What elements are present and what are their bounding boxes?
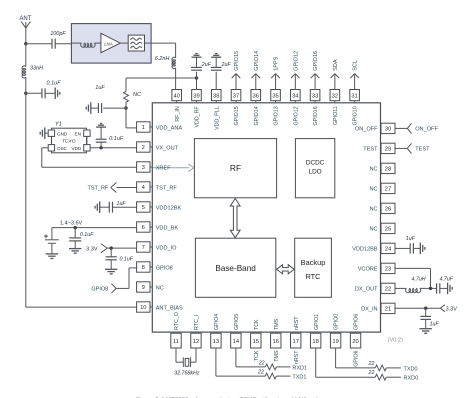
port GPIO15 arrow bbox=[235, 74, 237, 90]
svg-text:ANT_BIAS: ANT_BIAS bbox=[156, 305, 183, 311]
capacitor 0.1uF VDD_IO bbox=[110, 248, 112, 257]
arrow RF to Base-Band bbox=[230, 199, 240, 238]
pin 31 box bbox=[350, 90, 360, 101]
svg-text:3.3V: 3.3V bbox=[86, 246, 98, 252]
svg-text:ANT: ANT bbox=[19, 16, 31, 22]
block Base-Band bbox=[195, 238, 275, 297]
block DCDC LDO bbox=[295, 139, 334, 198]
wire pin 13 GPIO4 to R bbox=[215, 348, 217, 376]
svg-text:RF_IN: RF_IN bbox=[175, 106, 181, 121]
svg-text:TCK: TCK bbox=[254, 350, 260, 361]
svg-text:14: 14 bbox=[233, 339, 240, 345]
svg-text:TCK: TCK bbox=[254, 319, 260, 330]
svg-text:GPIO11: GPIO11 bbox=[333, 106, 339, 125]
pin 33 box bbox=[310, 90, 320, 101]
ground 4.7uF cap bbox=[447, 283, 449, 295]
svg-text:32.768kHz: 32.768kHz bbox=[174, 370, 200, 376]
wire ANT_BIAS rail bbox=[25, 93, 27, 307]
capacitor 1uF VDD12BB bbox=[395, 247, 410, 249]
svg-text:6.2nH: 6.2nH bbox=[155, 56, 170, 62]
svg-text:GPIO8: GPIO8 bbox=[156, 265, 173, 271]
svg-text:VDD12BK: VDD12BK bbox=[156, 205, 182, 211]
pin 14 box bbox=[231, 333, 241, 348]
svg-text:GPIO8: GPIO8 bbox=[91, 287, 108, 293]
svg-text:VDD_RF: VDD_RF bbox=[195, 106, 201, 128]
svg-text:GPIO4: GPIO4 bbox=[214, 314, 220, 330]
pin 36 box bbox=[251, 90, 261, 101]
node DX_OUT junction bbox=[429, 287, 432, 290]
svg-text:38: 38 bbox=[213, 94, 219, 100]
svg-text:25: 25 bbox=[385, 227, 391, 233]
svg-text:4.7uF: 4.7uF bbox=[440, 277, 454, 283]
svg-text:9: 9 bbox=[142, 285, 145, 291]
svg-text:1uF: 1uF bbox=[95, 85, 105, 91]
svg-text:RTC_O: RTC_O bbox=[174, 312, 180, 330]
pin 35 box bbox=[271, 90, 281, 101]
wire pin 18 GPIO1 to R bbox=[315, 348, 317, 377]
capacitor 1uF VDD12BK bbox=[100, 206, 109, 208]
svg-text:NC: NC bbox=[133, 92, 141, 98]
battery backup cell bbox=[51, 228, 53, 240]
block RF bbox=[194, 139, 276, 198]
ground antenna cap bbox=[54, 88, 56, 100]
net RXD0 bbox=[386, 376, 401, 378]
pin 19 box bbox=[330, 333, 340, 348]
pin 2 box bbox=[137, 142, 150, 152]
svg-text:18: 18 bbox=[312, 339, 318, 345]
svg-text:GND: GND bbox=[57, 132, 68, 137]
svg-text:VDD_BK: VDD_BK bbox=[156, 225, 179, 231]
op-amp LNA triangle bbox=[101, 33, 120, 52]
svg-text:2uF: 2uF bbox=[221, 62, 232, 68]
pin 12 box bbox=[191, 333, 201, 348]
pin 8 box bbox=[137, 262, 150, 272]
wire crystal to pin 12 bbox=[191, 361, 196, 363]
net TXD1 bbox=[276, 375, 290, 377]
pin 40 box bbox=[172, 90, 182, 101]
svg-text:3: 3 bbox=[142, 165, 145, 171]
svg-text:GPIO0: GPIO0 bbox=[334, 314, 340, 330]
svg-text:27: 27 bbox=[385, 187, 391, 193]
svg-text:33: 33 bbox=[312, 94, 318, 100]
svg-text:24: 24 bbox=[385, 247, 392, 253]
pin 3 box bbox=[137, 162, 150, 172]
svg-text:100pF: 100pF bbox=[50, 31, 66, 37]
svg-text:19: 19 bbox=[332, 339, 338, 345]
svg-text:TMS: TMS bbox=[274, 350, 280, 362]
svg-text:OSC: OSC bbox=[57, 146, 68, 151]
svg-text:VDD: VDD bbox=[72, 146, 82, 151]
svg-text:GPIO15: GPIO15 bbox=[234, 51, 240, 71]
svg-text:16: 16 bbox=[273, 339, 279, 345]
svg-text:0.1uF: 0.1uF bbox=[47, 80, 62, 86]
pin 16 box bbox=[271, 333, 281, 348]
ground TCXO GND pin bbox=[45, 132, 48, 134]
pin 39 box bbox=[192, 90, 202, 101]
node antenna junction bbox=[24, 42, 27, 45]
wire TCXO EN to VDD tie bbox=[86, 136, 88, 144]
svg-text:RTC: RTC bbox=[305, 272, 321, 281]
svg-text:VCORE: VCORE bbox=[358, 267, 378, 273]
svg-text:Base-Band: Base-Band bbox=[215, 264, 256, 273]
arrow XREF to RF bbox=[153, 167, 189, 169]
ground VDD_RF cap bbox=[192, 56, 202, 58]
svg-text:8: 8 bbox=[142, 265, 145, 271]
resistor 22 RXD0 bbox=[375, 374, 386, 380]
capacitor 0.1uF TCXO bbox=[100, 142, 102, 148]
pin 34 box bbox=[291, 90, 301, 101]
svg-text:GPIO10: GPIO10 bbox=[353, 106, 359, 125]
capacitor 0.1uF VDD_BK bbox=[74, 228, 76, 238]
crystal X1 32.768kHz bbox=[182, 357, 184, 367]
inductor in LNA module bbox=[81, 43, 95, 47]
pin 15 box bbox=[251, 333, 261, 348]
svg-text:39: 39 bbox=[193, 94, 199, 100]
svg-text:0.1uF: 0.1uF bbox=[80, 232, 94, 238]
pin 13 box bbox=[211, 333, 221, 348]
svg-text:VDD_IO: VDD_IO bbox=[156, 245, 177, 251]
block Backup RTC bbox=[295, 238, 332, 297]
port SCL arrow bbox=[354, 74, 356, 90]
resistor 22 TXD0 bbox=[375, 365, 386, 371]
LNA module box bbox=[71, 24, 151, 64]
svg-text:31: 31 bbox=[351, 94, 357, 100]
pin 5 box bbox=[137, 202, 150, 212]
pin 22 box bbox=[381, 283, 395, 293]
svg-text:6: 6 bbox=[142, 225, 145, 231]
svg-text:Y1: Y1 bbox=[55, 122, 62, 128]
capacitor 100pF bbox=[51, 39, 53, 49]
pin 38 box bbox=[211, 90, 221, 101]
svg-text:1: 1 bbox=[142, 125, 145, 131]
svg-text:15: 15 bbox=[253, 339, 259, 345]
svg-text:TST_RF: TST_RF bbox=[88, 186, 109, 192]
svg-text:0.1uF: 0.1uF bbox=[109, 136, 124, 142]
pin 26 box bbox=[381, 203, 395, 213]
wire pin 21 DX_IN bbox=[395, 307, 440, 309]
port GPIO8 arrow bbox=[111, 284, 116, 289]
svg-text:TCXO: TCXO bbox=[62, 138, 76, 144]
port GPIO14 arrow bbox=[255, 74, 257, 90]
pin 10 box bbox=[137, 302, 150, 312]
pin 17 box bbox=[291, 333, 301, 348]
svg-text:RTC_I: RTC_I bbox=[194, 315, 200, 330]
svg-text:30: 30 bbox=[385, 127, 391, 133]
svg-text:17: 17 bbox=[292, 339, 298, 345]
antenna ANT bbox=[25, 28, 27, 44]
node VDD_RF junction bbox=[195, 76, 198, 79]
ground VDD_PLL cap bbox=[211, 56, 221, 58]
resistor 22 TXD1 bbox=[265, 373, 276, 379]
pin 29 box bbox=[381, 143, 395, 153]
svg-text:35: 35 bbox=[272, 94, 278, 100]
wire antenna to C 100pF bbox=[26, 43, 52, 45]
node DX_IN junction bbox=[424, 307, 427, 310]
svg-text:GPIO13: GPIO13 bbox=[274, 106, 280, 125]
svg-text:7: 7 bbox=[142, 245, 145, 251]
SAW filter bbox=[128, 35, 144, 51]
svg-text:TXD0: TXD0 bbox=[404, 366, 418, 372]
svg-text:NC: NC bbox=[370, 167, 378, 173]
svg-text:NC: NC bbox=[370, 227, 378, 233]
wire 100pF to LNA module bbox=[55, 43, 71, 45]
svg-text:VDD_PLL: VDD_PLL bbox=[214, 106, 220, 130]
svg-text:GPIO16: GPIO16 bbox=[313, 106, 319, 125]
svg-text:22: 22 bbox=[368, 370, 375, 376]
svg-text:32: 32 bbox=[332, 94, 338, 100]
svg-text:26: 26 bbox=[385, 207, 391, 213]
svg-text:2uF: 2uF bbox=[201, 62, 212, 68]
wire pin 6 VDD_BK rail bbox=[52, 227, 137, 229]
ground VDD12BK cap bbox=[99, 201, 101, 213]
svg-text:GPIO5: GPIO5 bbox=[234, 314, 240, 330]
svg-text:GPIO6: GPIO6 bbox=[354, 350, 360, 366]
svg-text:nRST: nRST bbox=[294, 350, 300, 364]
svg-text:37: 37 bbox=[233, 94, 239, 100]
pin 20 box bbox=[350, 333, 360, 348]
wire inductor to LNA amp bbox=[94, 42, 101, 44]
wire 6.2nH to pin 40 bbox=[175, 68, 177, 90]
svg-text:GPIO1: GPIO1 bbox=[314, 314, 320, 330]
svg-text:1uF: 1uF bbox=[406, 236, 416, 242]
svg-text:TEST: TEST bbox=[363, 147, 378, 153]
capacitor 4.7uF DX_OUT bbox=[436, 283, 438, 293]
capacitor 1uF DX_IN bbox=[425, 308, 427, 316]
pin 18 box bbox=[310, 333, 320, 348]
svg-text:SDA: SDA bbox=[333, 59, 339, 71]
svg-text:20: 20 bbox=[352, 339, 358, 345]
svg-text:28: 28 bbox=[385, 167, 391, 173]
svg-text:XREF: XREF bbox=[156, 165, 172, 171]
port 1PPS arrow bbox=[275, 74, 277, 90]
pin 32 box bbox=[330, 90, 340, 101]
svg-text:VX_OUT: VX_OUT bbox=[156, 145, 179, 151]
capacitor 2uF VDD_RF bbox=[196, 72, 198, 90]
svg-text:TMS: TMS bbox=[274, 318, 280, 330]
svg-text:TXD1: TXD1 bbox=[292, 375, 306, 381]
port TEST arrow bbox=[395, 147, 407, 149]
svg-text:LDO: LDO bbox=[309, 169, 322, 176]
svg-text:4.7uH: 4.7uH bbox=[412, 277, 426, 283]
wire filter to corner bbox=[145, 42, 152, 44]
wire pin 11 to crystal bbox=[175, 348, 177, 362]
pin 21 box bbox=[381, 303, 395, 313]
svg-text:Backup: Backup bbox=[301, 258, 326, 267]
svg-text:1.4~3.6V: 1.4~3.6V bbox=[60, 221, 83, 227]
inductor 4.7uH DX_OUT bbox=[395, 287, 406, 289]
svg-text:SCL: SCL bbox=[353, 60, 359, 71]
pin 23 box bbox=[381, 263, 395, 273]
ground DX_IN cap bbox=[420, 328, 432, 330]
svg-text:DX_IN: DX_IN bbox=[361, 307, 377, 313]
wire VDD_RF rail to NC resistor bbox=[126, 77, 197, 79]
svg-text:nRST: nRST bbox=[294, 316, 300, 330]
net TXD0 bbox=[386, 367, 401, 369]
inductor L 33nH bbox=[25, 44, 27, 67]
wire LNA amp to SAW filter bbox=[120, 42, 128, 44]
port SDA arrow bbox=[334, 74, 336, 90]
pin 6 box bbox=[137, 222, 150, 232]
svg-text:23: 23 bbox=[385, 267, 391, 273]
wire pin 19 GPIO0 to R bbox=[335, 348, 337, 368]
svg-text:GPIO14: GPIO14 bbox=[254, 51, 260, 71]
svg-text:1uF: 1uF bbox=[430, 321, 440, 327]
capacitor 1uF VDD_ANA bbox=[103, 107, 126, 109]
wire TCXO VDD to pin 2 bbox=[90, 147, 137, 149]
ground battery bbox=[46, 253, 58, 255]
port GPIO12 arrow bbox=[294, 74, 296, 90]
svg-text:EN: EN bbox=[75, 132, 81, 137]
pin 11 box bbox=[171, 333, 181, 348]
svg-text:NC: NC bbox=[156, 285, 164, 291]
svg-text:3.3V: 3.3V bbox=[446, 306, 458, 312]
svg-text:ON_OFF: ON_OFF bbox=[355, 127, 378, 133]
svg-text:2: 2 bbox=[142, 145, 145, 151]
pin 7 box bbox=[137, 242, 150, 252]
resistor 22 RXD1 bbox=[265, 364, 276, 370]
wire pin 4 TST_RF bbox=[117, 187, 137, 189]
inductor L 6.2nH bbox=[172, 57, 176, 68]
svg-text:DCDC: DCDC bbox=[306, 160, 325, 167]
svg-text:VDD_ANA: VDD_ANA bbox=[156, 125, 183, 131]
svg-text:36: 36 bbox=[253, 94, 259, 100]
svg-text:VDD12BB: VDD12BB bbox=[352, 247, 378, 253]
port TST_RF arrow bbox=[111, 183, 117, 188]
svg-text:GPIO6: GPIO6 bbox=[354, 314, 360, 330]
svg-text:1uF: 1uF bbox=[117, 201, 127, 207]
wire NC resistor to junction bbox=[125, 102, 127, 108]
power 3.3V DX_IN bbox=[440, 305, 445, 309]
pin 24 box bbox=[381, 243, 395, 253]
port ON_OFF arrow bbox=[395, 127, 407, 129]
svg-text:RF: RF bbox=[230, 163, 241, 173]
svg-text:22: 22 bbox=[257, 369, 264, 375]
pin 28 box bbox=[381, 163, 395, 173]
ground VDD_IO cap bbox=[105, 268, 117, 270]
wire pin 14 GPIO5 to R bbox=[235, 348, 237, 367]
IC U1 outline bbox=[152, 103, 380, 332]
svg-text:ON_OFF: ON_OFF bbox=[415, 127, 438, 133]
svg-text:40: 40 bbox=[173, 94, 179, 100]
pin 9 box bbox=[137, 282, 150, 292]
svg-text:GPIO15: GPIO15 bbox=[234, 106, 240, 125]
ground TCXO cap bbox=[96, 126, 106, 128]
svg-text:TST_RF: TST_RF bbox=[156, 185, 178, 191]
wire TCXO OSC to pin 3 XREF bbox=[42, 147, 48, 149]
svg-text:29: 29 bbox=[385, 147, 391, 153]
pin 27 box bbox=[381, 183, 395, 193]
svg-text:10: 10 bbox=[140, 305, 146, 311]
svg-text:(V0.2): (V0.2) bbox=[388, 338, 403, 344]
ground VDD_BK cap bbox=[69, 248, 81, 250]
capacitor 2uF VDD_PLL bbox=[215, 72, 217, 90]
svg-text:DX_OUT: DX_OUT bbox=[355, 287, 378, 293]
svg-text:RXD1: RXD1 bbox=[292, 365, 307, 371]
node ANT_BIAS junction bbox=[24, 92, 27, 95]
svg-text:11: 11 bbox=[173, 339, 179, 345]
wire into LNA inductor bbox=[71, 42, 81, 44]
node VDD_IO junction bbox=[110, 246, 113, 249]
port GPIO16 arrow bbox=[314, 74, 316, 90]
svg-text:GPIO12: GPIO12 bbox=[293, 106, 299, 125]
node VDD_ANA junction bbox=[124, 106, 127, 109]
resistor NC bbox=[124, 91, 129, 102]
ground VDD_ANA cap bbox=[90, 102, 92, 114]
svg-text:13: 13 bbox=[213, 339, 219, 345]
svg-text:TEST: TEST bbox=[415, 147, 430, 153]
svg-text:12: 12 bbox=[193, 339, 199, 345]
pin 25 box bbox=[381, 223, 395, 233]
pin 1 box bbox=[137, 122, 150, 132]
pin 4 box bbox=[137, 182, 150, 192]
wire pin 8 GPIO8 bbox=[129, 267, 137, 269]
svg-text:21: 21 bbox=[385, 307, 391, 313]
svg-text:NC: NC bbox=[370, 207, 378, 213]
svg-text:0.1uF: 0.1uF bbox=[120, 256, 134, 262]
svg-text:1PPS: 1PPS bbox=[274, 56, 280, 70]
pin 30 box bbox=[381, 123, 395, 133]
node VDD_BK junction bbox=[74, 226, 77, 229]
svg-text:LNA: LNA bbox=[104, 41, 113, 46]
wire pin 7 VDD_IO bbox=[107, 247, 136, 249]
wire junction to pin 1 bbox=[125, 108, 127, 128]
pin 37 box bbox=[231, 90, 241, 101]
svg-text:RXD0: RXD0 bbox=[404, 376, 419, 382]
arrow Base-Band to Backup RTC bbox=[277, 265, 295, 274]
svg-text:34: 34 bbox=[292, 94, 299, 100]
ground VDD12BB cap bbox=[419, 243, 421, 255]
wire 33nH to junction bbox=[25, 77, 27, 93]
svg-text:22: 22 bbox=[385, 287, 391, 293]
svg-text:5: 5 bbox=[142, 205, 145, 211]
svg-text:GPIO12: GPIO12 bbox=[293, 51, 299, 71]
svg-text:22: 22 bbox=[368, 361, 375, 367]
svg-text:33nH: 33nH bbox=[30, 65, 43, 71]
svg-text:GPIO16: GPIO16 bbox=[313, 51, 319, 71]
node TCXO VDD junction bbox=[99, 146, 102, 149]
net RXD1 bbox=[276, 366, 290, 368]
wire VCORE to DX node bbox=[395, 267, 431, 269]
svg-text:GPIO14: GPIO14 bbox=[254, 106, 260, 125]
capacitor 0.1uF antenna bbox=[26, 92, 42, 94]
svg-text:NC: NC bbox=[370, 187, 378, 193]
